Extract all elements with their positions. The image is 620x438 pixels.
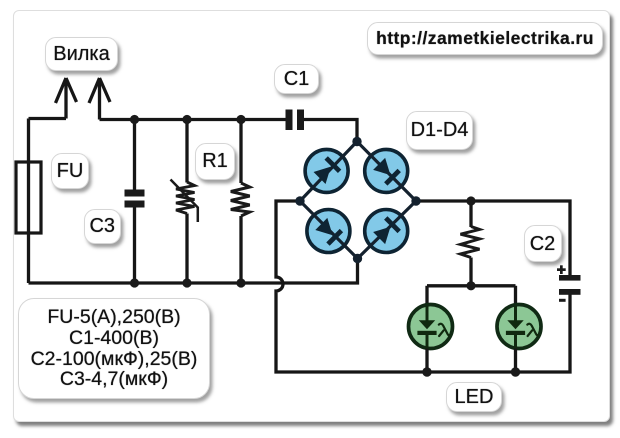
junction dots DC side <box>422 196 520 376</box>
diode bridge circle D2 (top-right) <box>365 149 408 192</box>
label C3 <box>84 209 121 244</box>
label site url <box>367 22 603 55</box>
component values box <box>18 298 210 399</box>
LED HL1 inner symbol <box>417 306 449 349</box>
wire: LED left bottom <box>425 349 428 373</box>
label Вилка (plug) <box>45 37 118 71</box>
diode symbol in D3 <box>315 217 343 245</box>
resistor R1 branch wires <box>239 120 242 284</box>
label C2 <box>524 225 562 262</box>
wire: left mains stub <box>29 117 67 120</box>
varistor zigzag <box>176 182 195 214</box>
label R1 <box>195 143 235 180</box>
bridge diamond wires <box>300 142 416 259</box>
C2 minus sign <box>559 299 566 302</box>
wire: C3 branch bottom <box>133 208 136 284</box>
ballast resistor zigzag <box>461 227 480 258</box>
wire: LED left drop <box>425 286 428 306</box>
wire: C3 branch top <box>133 120 136 191</box>
wire: LED right drop <box>514 286 517 306</box>
diode symbol in D4 <box>372 216 400 244</box>
wire: bridge left node to negative rail with hop <box>276 201 570 372</box>
label LED <box>446 382 502 412</box>
wire: left vertical through fuse <box>27 119 30 284</box>
varistor diagonal stroke <box>171 180 198 223</box>
junction dots top rail <box>130 115 246 124</box>
wire: C1 to bridge top <box>304 120 357 142</box>
label FU <box>51 153 89 189</box>
junction dots bridge nodes <box>295 137 420 263</box>
fuse FU <box>16 162 41 233</box>
capacitor C2 <box>559 275 581 295</box>
wire: bridge right node to C2 top <box>416 201 570 276</box>
LED circle HL2 <box>497 305 541 349</box>
plug arrow left <box>56 78 77 119</box>
diode bridge circle D1 (top-left) <box>305 149 348 192</box>
ballast resistor branch wires <box>469 201 472 286</box>
diode symbol in D1 <box>313 156 341 184</box>
wire: LED top rail <box>427 284 516 287</box>
capacitor C1 <box>286 110 305 131</box>
capacitor C3 <box>125 190 145 208</box>
wire: top rail <box>100 118 287 121</box>
plug arrow right <box>89 78 110 120</box>
LED circle HL1 <box>409 305 453 349</box>
diode symbol in D2 <box>372 157 400 185</box>
C2 plus sign <box>557 265 566 274</box>
label C1 <box>274 64 319 94</box>
label D1-D4 <box>406 111 473 150</box>
wire: bottom mains rail <box>29 259 358 284</box>
diode bridge circle D3 (bottom-left) <box>307 210 350 253</box>
wire: LED right bottom <box>514 349 517 373</box>
resistor R1 zigzag <box>231 183 250 216</box>
junction dots bottom rail <box>130 278 246 287</box>
diode bridge circle D4 (bottom-right) <box>365 210 408 253</box>
LED HL2 inner symbol <box>506 306 538 349</box>
varistor RU branch wires <box>185 120 188 284</box>
